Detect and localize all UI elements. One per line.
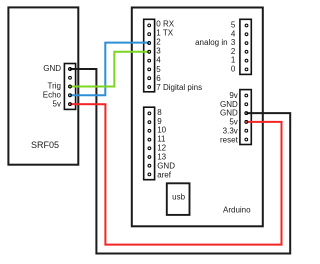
svg-text:9v: 9v — [229, 91, 237, 100]
ring GND (SRF05) — [69, 68, 72, 71]
pin 5v (SRF05) — [69, 103, 72, 106]
svg-text:SRF05: SRF05 — [31, 140, 59, 150]
svg-text:1 TX: 1 TX — [156, 29, 173, 38]
power pin labels — [220, 91, 239, 144]
pin Echo (SRF05) — [69, 94, 72, 97]
svg-text:9: 9 — [157, 117, 162, 126]
SRF05 pin header J1 — [64, 64, 75, 110]
svg-text:0: 0 — [231, 65, 236, 74]
ring 5v (SRF05) — [69, 103, 72, 106]
digital header pin circles 0-7 — [148, 24, 151, 88]
svg-text:3: 3 — [231, 38, 236, 47]
svg-text:5: 5 — [231, 21, 236, 30]
pin GND (SRF05) — [69, 68, 72, 71]
digital pin labels — [156, 20, 202, 92]
svg-text:1: 1 — [231, 56, 236, 65]
usb connector box — [167, 183, 190, 215]
svg-text:2: 2 — [156, 38, 161, 47]
svg-text:0 RX: 0 RX — [156, 20, 174, 29]
wire red: SRF05 5v to Arduino 5v — [70, 104, 282, 245]
svg-text:11: 11 — [157, 135, 166, 144]
svg-text:5v: 5v — [53, 100, 61, 109]
svg-text:analog in: analog in — [195, 38, 227, 47]
SRF05 module body — [8, 7, 78, 164]
svg-text:5: 5 — [156, 65, 161, 74]
ring Echo (SRF05) — [69, 94, 72, 97]
wire green: SRF05 Trig to Arduino digital pin 3 — [70, 52, 149, 87]
pin 2 unused (SRF05) — [69, 76, 72, 79]
digital pins header (0-7) — [144, 19, 155, 92]
svg-text:usb: usb — [172, 192, 185, 201]
svg-text:4: 4 — [156, 56, 161, 65]
svg-text:4: 4 — [231, 29, 236, 38]
SRF05 pin labels — [43, 64, 62, 109]
svg-text:5v: 5v — [229, 118, 237, 127]
svg-text:Echo: Echo — [43, 91, 62, 100]
analog in header — [240, 19, 251, 74]
svg-text:Arduino: Arduino — [223, 205, 251, 214]
svg-text:3.3v: 3.3v — [223, 127, 238, 136]
svg-text:2: 2 — [231, 47, 236, 56]
SRF05 header pin circles — [69, 68, 72, 106]
svg-text:7 Digital pins: 7 Digital pins — [156, 83, 202, 92]
ring digital pin 2 — [148, 42, 151, 45]
svg-text:8: 8 — [157, 108, 162, 117]
Arduino board body — [132, 8, 263, 227]
ring Trig (SRF05) — [69, 85, 72, 88]
svg-text:Trig: Trig — [48, 82, 61, 91]
ring digital pin 3 — [148, 50, 151, 53]
wire blue: SRF05 Echo to Arduino digital pin 2 — [70, 43, 149, 96]
digital pins header 8-13/GND/aref — [144, 107, 155, 180]
pin Trig (SRF05) — [69, 85, 72, 88]
svg-text:GND: GND — [157, 162, 175, 171]
analog header pin circles 5-0 — [245, 24, 248, 71]
svg-text:GND: GND — [220, 100, 238, 109]
power header — [240, 90, 251, 145]
svg-text:10: 10 — [157, 126, 166, 135]
connected pin rings redrawn over wires — [69, 42, 248, 124]
ring power GND — [245, 112, 248, 115]
svg-text:6: 6 — [156, 74, 161, 83]
svg-text:GND: GND — [220, 109, 238, 118]
power header pin circles — [245, 94, 248, 141]
svg-text:12: 12 — [157, 144, 166, 153]
lower digital pin labels — [157, 108, 175, 179]
ring power 5v — [245, 121, 248, 124]
svg-text:aref: aref — [157, 170, 172, 179]
wire GND black: SRF05 GND to Arduino GND — [70, 69, 290, 254]
svg-text:GND: GND — [43, 64, 61, 73]
svg-text:reset: reset — [220, 135, 239, 144]
svg-text:3: 3 — [156, 47, 161, 56]
analog pin labels — [231, 21, 236, 74]
digital header pin circles 8-aref — [148, 112, 151, 176]
svg-text:13: 13 — [157, 153, 166, 162]
